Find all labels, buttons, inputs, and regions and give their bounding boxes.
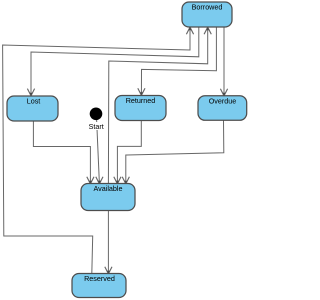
- state Overdue: [198, 96, 247, 121]
- svg-text:Reserved: Reserved: [84, 274, 115, 283]
- wire Reserved to Borrowed (left big loop): [3, 27, 190, 274]
- wire Available to Borrowed: [108, 27, 207, 184]
- arrowhead into Available (from Returned): [114, 177, 121, 184]
- wire Borrowed to Returned: [141, 27, 216, 95]
- initial node (Start dot): [90, 108, 103, 121]
- state Reserved: [72, 274, 126, 298]
- wire Lost to Available: [33, 121, 90, 184]
- wire Start to Available: [97, 120, 100, 184]
- state Borrowed: [182, 2, 232, 27]
- arrowhead into Borrowed (from Available): [204, 27, 211, 34]
- wire Returned to Available: [117, 121, 141, 184]
- arrowhead into Available (from Lost): [87, 177, 94, 184]
- wire Borrowed to Lost: [31, 27, 199, 96]
- svg-text:Returned: Returned: [126, 96, 156, 105]
- arrowhead into Lost (from Borrowed): [27, 89, 34, 96]
- arrowhead into Returned (from Borrowed): [138, 88, 145, 95]
- arrowhead into Overdue (from Borrowed): [220, 89, 227, 96]
- svg-text:Overdue: Overdue: [209, 96, 237, 105]
- wire Borrowed to Overdue: [223, 27, 225, 96]
- svg-text:Available: Available: [93, 184, 122, 193]
- arrowhead into Borrowed (from Reserved): [186, 27, 193, 34]
- state Available: [81, 184, 135, 211]
- label Start: [88, 122, 105, 131]
- wire Overdue to Available: [126, 121, 224, 184]
- arrowhead into Available (from Start): [96, 177, 103, 184]
- svg-text:Borrowed: Borrowed: [192, 3, 223, 12]
- arrowhead into Reserved (from Available): [105, 267, 112, 274]
- wire Available to Reserved: [107, 210, 109, 274]
- svg-text:Lost: Lost: [27, 97, 41, 106]
- state Returned: [115, 96, 166, 121]
- svg-text:Start: Start: [89, 122, 104, 131]
- state Lost: [7, 96, 58, 121]
- arrowhead into Available (from Overdue): [122, 177, 129, 184]
